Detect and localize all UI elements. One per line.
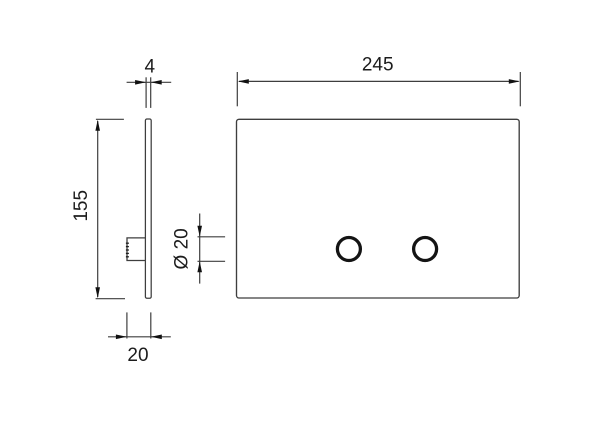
dimension 245 extension lines: [237, 72, 520, 106]
side view thread tick marks: [126, 243, 129, 257]
dimension diameter 20 line with arrows: [197, 214, 202, 284]
dimension 20 bottom line with arrows: [108, 335, 171, 340]
dimension 4 label: [145, 57, 156, 78]
front view right button circle: [414, 238, 437, 261]
dimension 20 bottom label: [127, 345, 148, 366]
dimension 245 label: [362, 54, 394, 75]
svg-text:20: 20: [127, 345, 148, 366]
dimension 4 extension lines: [146, 77, 151, 108]
side view plate outline: [145, 119, 151, 298]
svg-text:4: 4: [145, 57, 156, 78]
svg-text:Ø 20: Ø 20: [172, 228, 193, 269]
svg-text:245: 245: [362, 54, 394, 75]
dimension 155 extension ticks: [96, 119, 125, 298]
side view mechanism box: [127, 238, 146, 261]
dimension 245 line with arrows: [238, 79, 520, 84]
dimension diameter 20 label (rotated): [172, 228, 193, 269]
dimension diameter 20 ticks: [198, 237, 226, 261]
dimension 155 line with arrows: [95, 120, 100, 298]
dimension 4 line with arrows: [127, 80, 172, 85]
front view plate outline: [237, 119, 520, 298]
svg-text:155: 155: [71, 190, 92, 222]
front view left button circle: [337, 238, 360, 261]
dimension 155 label (rotated): [71, 190, 92, 222]
dimension 20 bottom extension lines: [127, 312, 151, 338]
